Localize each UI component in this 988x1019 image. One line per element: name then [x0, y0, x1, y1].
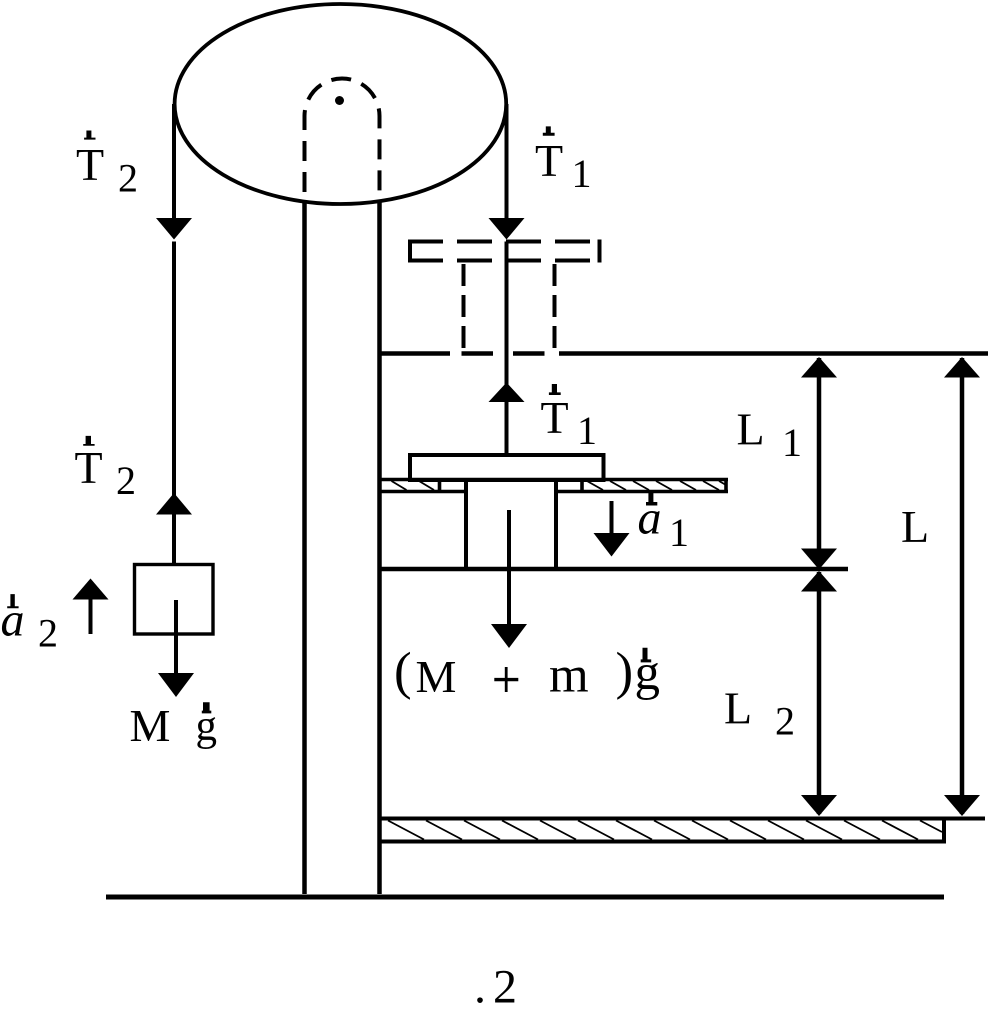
svg-text:1: 1	[782, 420, 802, 465]
svg-text:T: T	[76, 139, 104, 190]
membrane band bottom line right	[557, 490, 728, 494]
svg-text:m: m	[549, 648, 589, 704]
membrane band top line	[379, 478, 728, 482]
a2 arrow	[89, 598, 93, 634]
piston stem left	[464, 479, 468, 567]
L dimension arrow	[960, 358, 965, 814]
right rope up arrowhead	[489, 383, 525, 403]
mass M box	[135, 565, 214, 635]
svg-text:2: 2	[775, 699, 795, 744]
right rope down arrowhead	[489, 218, 525, 240]
L1 dimension arrow	[817, 358, 822, 568]
L2 dimension arrow	[817, 572, 822, 814]
post left wire	[302, 200, 307, 894]
svg-text:(: (	[394, 643, 412, 701]
floor slab right cap	[942, 817, 946, 844]
membrane band divider left	[438, 478, 442, 493]
right rope wire upper	[505, 104, 509, 219]
post right wire	[377, 200, 382, 894]
dashed piston right leg	[553, 264, 557, 348]
svg-text:1: 1	[572, 151, 592, 196]
svg-text:L: L	[901, 501, 929, 552]
vector tick over T1 middle	[549, 384, 561, 395]
dashed piston left leg	[462, 264, 466, 348]
membrane band right cap	[724, 478, 728, 493]
svg-text:T: T	[535, 135, 563, 186]
floor slab top line	[379, 817, 985, 821]
floor slab hatch	[388, 821, 942, 840]
vector tick over T1 top	[543, 126, 555, 135]
pulley ellipse	[175, 4, 507, 204]
svg-text:1: 1	[669, 510, 689, 555]
membrane hatch right	[587, 481, 726, 490]
vector tick over a2	[7, 594, 18, 608]
(M+m)g arrow	[507, 510, 511, 626]
svg-text:): )	[616, 643, 634, 701]
svg-text:L: L	[737, 404, 765, 455]
svg-text:T: T	[75, 442, 103, 493]
Mg arrow	[174, 600, 178, 675]
floor slab bottom line	[379, 840, 944, 844]
vector tick over g	[202, 702, 212, 713]
vector tick over a1	[646, 493, 657, 506]
pulley axle dot	[335, 96, 344, 105]
a1 arrow	[610, 501, 614, 535]
dashed piston bar left end	[408, 240, 412, 263]
svg-text:1: 1	[577, 408, 597, 453]
membrane band bottom line left	[379, 490, 465, 494]
svg-text:2: 2	[118, 156, 138, 201]
left rope down arrowhead	[156, 218, 192, 240]
svg-text:.: .	[474, 961, 486, 1014]
svg-text:2: 2	[493, 961, 517, 1014]
svg-text:M: M	[130, 700, 171, 751]
vector tick over T2 top	[84, 131, 95, 140]
svg-text:M: M	[416, 651, 457, 702]
svg-text:L: L	[724, 683, 752, 734]
ground line	[106, 895, 944, 900]
right rope wire lower	[505, 242, 509, 456]
dashed piston bar right end	[598, 240, 602, 263]
dashed piston bar top	[408, 240, 601, 244]
middle level line	[379, 567, 848, 572]
dashed piston bar bottom	[408, 259, 601, 263]
piston plate	[410, 455, 604, 480]
left rope up arrowhead	[156, 493, 192, 515]
membrane band divider right	[580, 478, 584, 493]
vector tick over T2 middle	[83, 436, 94, 446]
left rope wire upper	[172, 104, 176, 219]
svg-text:2: 2	[38, 611, 58, 656]
vector tick over g in (M+m)g	[641, 648, 652, 663]
membrane hatch left	[392, 481, 435, 490]
left rope wire lower	[172, 242, 176, 565]
upper level line	[378, 351, 450, 356]
dashed post cap inside pulley	[305, 79, 380, 204]
svg-text:T: T	[541, 392, 569, 443]
svg-text:2: 2	[116, 458, 136, 503]
piston stem right	[554, 479, 558, 567]
